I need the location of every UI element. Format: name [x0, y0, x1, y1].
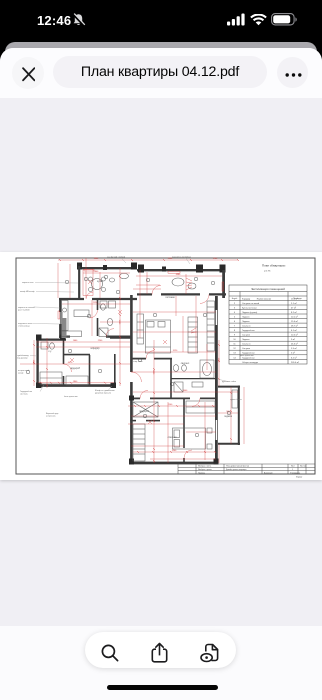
living sofa oval — [172, 278, 184, 286]
bed bedroom2 — [173, 428, 206, 449]
svg-text:спальня: спальня — [168, 437, 177, 439]
svg-text:гардероб: гардероб — [70, 368, 80, 370]
red X demolition marks — [70, 280, 167, 424]
home indicator — [107, 685, 218, 690]
wall pier mid A — [103, 265, 107, 270]
more (...) button — [277, 57, 308, 88]
svg-text:Наименование: Наименование — [257, 298, 272, 300]
dim wing mid — [128, 405, 216, 407]
dim loggia — [218, 412, 238, 414]
bath C fixtures — [101, 304, 106, 310]
svg-text:9: 9 — [234, 335, 236, 337]
explication table — [229, 285, 307, 364]
wall: loggia right — [238, 386, 240, 446]
door arc wing entry — [131, 372, 141, 382]
dim vert corridor — [119, 268, 121, 386]
pier wing bottom-right — [214, 459, 219, 465]
wardrobe 2 shelving — [133, 424, 145, 461]
svg-text:дверями зеркало: дверями зеркало — [95, 393, 112, 395]
svg-text:Санузел гостевой: Санузел гостевой — [242, 302, 260, 305]
dim top B inner — [136, 275, 222, 277]
svg-text:5 м²: 5 м² — [291, 352, 295, 355]
wall pier A right — [131, 263, 137, 270]
door arc bedroom1 — [146, 351, 154, 359]
svg-text:10.1 м²: 10.1 м² — [291, 316, 298, 319]
dim vert A interior — [85, 258, 87, 298]
svg-text:Общая площадь: Общая площадь — [242, 362, 258, 364]
appliances — [100, 301, 107, 308]
svg-text:Подпись: Подпись — [198, 472, 205, 474]
dresser bedroom1 — [137, 314, 144, 344]
preview (doc with eye) icon — [199, 642, 222, 664]
pier D top-right — [60, 335, 66, 341]
svg-text:Изображ. проект: Изображ. проект — [198, 469, 212, 471]
wall: wing bottom — [130, 462, 217, 465]
red leader arrows cluster — [186, 278, 192, 290]
svg-text:8: 8 — [234, 330, 236, 332]
wardrobe 1 — [133, 402, 158, 417]
wall: block D left — [36, 338, 38, 386]
svg-text:11: 11 — [233, 344, 236, 346]
svg-text:15.5 м²: 15.5 м² — [291, 297, 298, 300]
header bar — [0, 48, 322, 98]
door arc B2 — [200, 294, 209, 303]
dim wing upper — [133, 391, 238, 393]
wall pier top-left A — [77, 263, 82, 270]
tub bath1 — [200, 360, 214, 378]
island — [74, 310, 89, 317]
nightstands — [207, 428, 212, 433]
dim left long — [20, 363, 130, 365]
svg-text:Лист: Лист — [291, 466, 295, 468]
wall: bedroom1 bottom left part — [131, 358, 146, 360]
svg-text:рост h=1600: рост h=1600 — [18, 310, 30, 312]
svg-text:Лоджия: Лоджия — [242, 339, 249, 341]
wifi icon — [250, 14, 267, 26]
door arc bedroom2 — [184, 450, 192, 458]
svg-text:205.4 м²: 205.4 м² — [291, 361, 299, 364]
pier wing bottom-left — [129, 459, 134, 465]
wall: B bottom band — [137, 293, 152, 295]
dim horiz wing extra — [131, 371, 216, 373]
svg-text:Санузел: Санузел — [242, 348, 251, 350]
signal bars — [227, 13, 246, 26]
svg-text:6.1 м²: 6.1 м² — [291, 329, 297, 332]
three dots glyph — [285, 72, 302, 78]
wall: bedroom1 left long — [130, 295, 133, 372]
closet D2 — [66, 376, 88, 385]
door arc D — [64, 364, 72, 372]
bidet bath1 — [182, 365, 187, 371]
wall pier B1 — [138, 265, 144, 273]
dim horiz D extra — [36, 346, 130, 348]
svg-text:Спальня: Спальня — [242, 344, 250, 346]
svg-text:10.5 м²: 10.5 м² — [291, 334, 298, 337]
svg-text:Гардеробная: Гардеробная — [242, 357, 255, 359]
side table oval — [120, 273, 129, 278]
wall: loggia bottom — [218, 443, 240, 445]
svg-text:26.3 м²: 26.3 м² — [291, 343, 298, 346]
svg-text:6.2 м²: 6.2 м² — [291, 356, 297, 359]
PDF page — [0, 252, 322, 480]
svg-text:м 1:75: м 1:75 — [264, 271, 271, 273]
dim D top — [36, 341, 130, 343]
dim vert A left — [57, 263, 59, 298]
red dim numbers — [32, 258, 230, 452]
sink bath1 — [192, 382, 203, 387]
wall: partition C bath — [97, 300, 99, 310]
svg-text:Дизайн проект квартиры: Дизайн проект квартиры — [226, 468, 247, 471]
svg-text:душевая лейка: душевая лейка — [222, 380, 237, 383]
annotation texts left — [17, 256, 254, 418]
svg-text:антресоль: антресоль — [46, 416, 56, 418]
svg-text:14: 14 — [233, 357, 236, 359]
door arc C — [90, 310, 98, 318]
title block texts — [198, 465, 306, 479]
closet D — [40, 372, 62, 384]
dim B bottom — [133, 351, 216, 353]
wall: D top — [37, 339, 67, 341]
hatched shaft column C — [62, 318, 67, 338]
svg-text:10: 10 — [233, 339, 236, 341]
svg-text:Гардеробная: Гардеробная — [242, 330, 255, 332]
wardrobe bedroom1 a — [188, 317, 198, 353]
svg-text:гардероб: гардероб — [139, 411, 149, 413]
wall: C bottom — [59, 336, 70, 338]
wall: block B right — [222, 270, 225, 298]
svg-text:5.1 м²: 5.1 м² — [291, 302, 297, 305]
svg-text:4: 4 — [234, 312, 236, 314]
dim top outer — [58, 259, 238, 261]
dim vert bedroom1 — [182, 316, 184, 352]
wall: partition D1 — [63, 338, 65, 364]
furniture group — [40, 273, 238, 461]
svg-text:1: 1 — [292, 469, 293, 471]
svg-text:гостиная: гостиная — [165, 297, 175, 299]
svg-text:3: 3 — [234, 307, 236, 309]
wall: A bottom / C top — [59, 298, 84, 300]
red tick clusters — [33, 259, 239, 462]
search icon — [100, 643, 120, 663]
loggia bench — [232, 390, 238, 408]
leader lines — [30, 257, 228, 392]
filename pill — [53, 56, 267, 88]
wall: partition D2 — [89, 355, 91, 386]
svg-text:над barной стойкой: над barной стойкой — [107, 256, 125, 259]
dim D bottom — [38, 382, 114, 384]
pier D bottom-left — [36, 383, 42, 389]
dim vert bedroom2 — [204, 402, 206, 460]
svg-text:Листов: Листов — [300, 466, 306, 468]
room labels — [48, 281, 232, 439]
dim vert far left — [33, 340, 35, 386]
dim C top — [62, 303, 130, 305]
door arc B1 — [152, 285, 161, 294]
pier D top-left — [36, 335, 42, 341]
dim vert wing — [153, 340, 155, 463]
wall pier B3 — [196, 265, 203, 273]
wall: bedroom1 right — [215, 296, 218, 310]
svg-text:Лоджия: Лоджия — [242, 321, 249, 323]
svg-text:5: 5 — [234, 317, 236, 319]
title block — [178, 464, 315, 474]
svg-text:сушка белья: сушка белья — [230, 399, 242, 401]
svg-text:9 м²: 9 м² — [291, 338, 295, 341]
wall: bath1 vertical — [170, 358, 172, 398]
wall: wing mid horizontal — [130, 397, 140, 399]
svg-text:Коридор: Коридор — [242, 298, 251, 300]
dim wing bottom — [133, 451, 216, 453]
shower C — [99, 328, 108, 337]
wall: wing vertical 2 — [183, 398, 185, 448]
background app card edge — [5, 42, 317, 102]
armchair oval — [109, 278, 114, 282]
svg-text:столешницы: столешницы — [18, 326, 30, 328]
svg-text:с.у.: с.у. — [48, 351, 52, 353]
wall: block B top — [137, 269, 225, 271]
svg-text:под размер: под размер — [17, 358, 28, 360]
svg-text:зеркало нов.: зеркало нов. — [22, 282, 34, 284]
muted bell icon — [71, 13, 86, 27]
door arc C2 — [106, 329, 114, 337]
wall: wing small horizontal — [130, 420, 136, 422]
svg-text:15.4 м²: 15.4 м² — [291, 320, 298, 323]
svg-text:блок хранения: блок хранения — [64, 396, 78, 398]
dining table round — [92, 279, 103, 290]
svg-text:Лоджия: Лоджия — [242, 317, 249, 319]
pier D bottom-right — [111, 383, 117, 389]
washer D — [41, 342, 48, 349]
svg-text:Лоджия (сушка): Лоджия (сушка) — [242, 312, 257, 314]
svg-text:Экспликация помещений: Экспликация помещений — [251, 287, 285, 291]
axis circles — [26, 275, 231, 437]
wall: bath horizontal low — [171, 378, 216, 380]
dim vert C — [91, 300, 93, 336]
svg-text:кухня: кухня — [97, 281, 104, 283]
document viewer content — [0, 98, 322, 626]
wardrobe 3 — [186, 401, 215, 413]
plan title — [262, 264, 286, 273]
svg-text:Формат: Формат — [296, 476, 303, 479]
wall pier B4 — [220, 265, 226, 273]
battery icon — [271, 13, 297, 26]
dim horiz extra B — [133, 288, 161, 290]
svg-text:Выполнил: Выполнил — [264, 472, 273, 474]
toilet bath1 — [173, 365, 178, 372]
table texts — [232, 287, 302, 301]
svg-text:12: 12 — [233, 348, 236, 350]
sheet frame — [16, 258, 315, 474]
svg-text:Спальня: Спальня — [242, 326, 250, 328]
radiator marks — [84, 269, 94, 271]
wall: corridor right — [114, 354, 116, 386]
bottom toolbar — [0, 626, 322, 700]
svg-text:План «Квартира»: План «Квартира» — [262, 264, 286, 268]
wall: block C left — [59, 298, 61, 312]
svg-text:6: 6 — [234, 321, 236, 323]
shower bath1 — [174, 382, 183, 392]
svg-text:8.2 м²: 8.2 м² — [291, 311, 297, 314]
wall pier B2 — [162, 267, 166, 272]
share icon — [149, 642, 170, 664]
wall: corridor top right stub — [110, 337, 131, 339]
door arc wing2 — [192, 398, 200, 406]
svg-text:5.9 м²: 5.9 м² — [291, 347, 297, 350]
svg-text:7: 7 — [234, 326, 236, 328]
dim wing low — [128, 423, 184, 425]
wall: loggia top — [218, 386, 240, 388]
svg-text:Гардеробная: Гардеробная — [242, 353, 255, 355]
door arc A — [86, 292, 93, 299]
dim vert B interior — [146, 272, 148, 294]
svg-text:подсветка линейная: подсветка линейная — [172, 256, 191, 259]
wall: D bottom — [37, 384, 117, 387]
svg-text:лоджия: лоджия — [224, 416, 233, 418]
status bar — [0, 0, 322, 44]
wall: block A top — [78, 267, 137, 269]
red dimension layer — [20, 258, 244, 463]
pier wing mid-left — [129, 396, 134, 401]
svg-text:2: 2 — [234, 303, 236, 305]
clock — [37, 13, 71, 28]
wardrobe bedroom1 b — [207, 301, 215, 351]
svg-text:шкаф НВ шкаф: шкаф НВ шкаф — [20, 290, 35, 293]
dim vert loggia — [230, 387, 232, 444]
red marked zone A — [83, 270, 93, 296]
bed bedroom1 — [146, 320, 171, 353]
svg-text:Изображ. листа: Изображ. листа — [198, 466, 211, 468]
wall: block A left — [78, 266, 80, 299]
svg-text:Санузел: Санузел — [242, 335, 251, 337]
svg-text:Кухня-гостиная: Кухня-гостиная — [242, 307, 257, 309]
svg-text:система: система — [20, 394, 28, 396]
svg-text:План демонтажный монтаж: План демонтажный монтаж — [226, 465, 250, 468]
svg-text:шкаф: шкаф — [18, 372, 24, 375]
svg-text:47 м²: 47 м² — [291, 306, 296, 309]
kitchen counter — [62, 301, 69, 331]
svg-text:Утверждено: Утверждено — [290, 472, 300, 474]
svg-text:коридор: коридор — [91, 348, 100, 350]
close X glyph — [22, 67, 36, 82]
svg-text:санузел: санузел — [181, 363, 190, 365]
dim A inner — [83, 272, 130, 274]
door arc wing1 — [140, 390, 148, 398]
svg-text:стир. маш: стир. маш — [133, 361, 143, 363]
wall: D mid horizontal — [63, 354, 90, 356]
svg-text:28.7 м²: 28.7 м² — [291, 325, 298, 328]
close button — [12, 57, 44, 89]
svg-text:13: 13 — [233, 353, 236, 355]
